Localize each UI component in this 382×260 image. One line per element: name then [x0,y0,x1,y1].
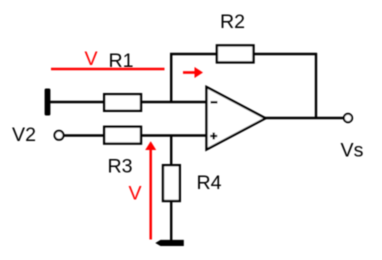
wire: R1 to inverting input [141,101,206,104]
svg-text:R3: R3 [108,156,133,178]
resistor R1 [104,94,141,111]
ground [155,240,184,246]
annotation: red current arrow into summing node [183,67,203,78]
wire: op-amp output [265,117,344,119]
terminal V2 [55,131,64,140]
svg-text:V: V [129,182,142,204]
resistor R4 [163,165,180,201]
wire: R2 to feedback corner [254,53,318,55]
ground terminal bar (grounded input) [45,89,51,116]
wire: V2 terminal to R3 [64,134,106,137]
wire: R4 to ground [170,200,172,241]
op-amp inverting input marker [211,101,218,103]
wire: R3 to non-inverting input [141,134,206,137]
resistor R3 [104,127,141,144]
annotation: red voltage line across R1 [51,68,165,70]
wire: feedback vertical down to output [315,53,317,118]
svg-text:R4: R4 [197,172,222,194]
svg-text:Vs: Vs [341,140,364,162]
svg-text:V: V [85,48,98,70]
annotation: red voltage arrow across R4 (to ground) [145,141,156,239]
wire: R2 branch horizontal left [170,53,218,55]
wire: node down to R4 [170,136,172,167]
svg-text:R2: R2 [220,11,245,33]
op-amp non-inverting input marker [210,133,217,140]
terminal Vs [344,114,352,122]
op-amp U1 [207,87,266,150]
wire: summing node up to R2 branch [170,53,172,102]
wire: bar to R1 [50,101,105,104]
svg-text:V2: V2 [12,124,36,146]
resistor R2 [217,45,254,62]
